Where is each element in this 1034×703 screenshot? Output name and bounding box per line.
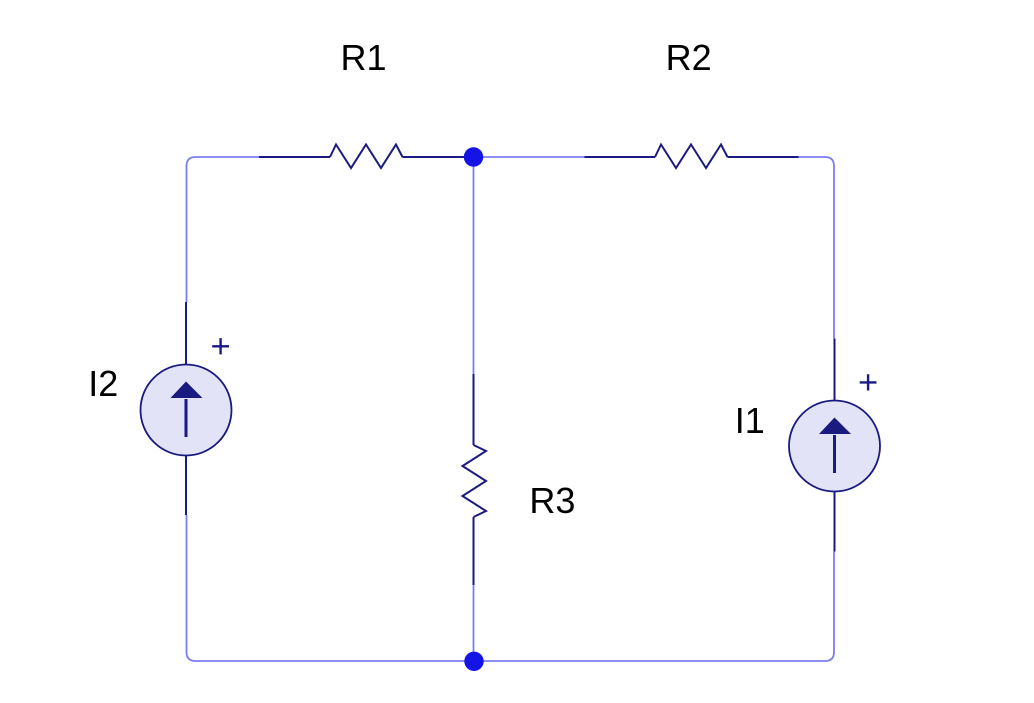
resistor R2 xyxy=(585,145,799,169)
junction node B (bottom) xyxy=(464,652,483,671)
wire: top middle, node A dot to R2 left pin xyxy=(474,156,585,158)
resistor R1 xyxy=(259,145,474,169)
wire: bottom loop from I2 bottom pin down, across bottom, up to I1 bottom pin xyxy=(187,515,835,661)
junction node A (top) xyxy=(464,147,483,166)
resistor R3 xyxy=(463,374,487,585)
wire: top-left from I2 top pin up and right to R1 left pin xyxy=(187,157,260,302)
current source I1 xyxy=(789,339,880,552)
wire: middle branch, R3 bottom pin down to node B dot xyxy=(473,585,475,661)
svg-text:R3: R3 xyxy=(529,480,575,521)
wire: top-right from R2 right pin right and down to I1 top pin xyxy=(799,157,835,339)
wire: middle branch, node A dot down to R3 top pin xyxy=(473,157,475,374)
current source I2 xyxy=(141,302,232,515)
svg-text:I1: I1 xyxy=(735,400,765,441)
svg-text:R2: R2 xyxy=(666,37,712,78)
svg-text:R1: R1 xyxy=(341,37,387,78)
svg-text:I2: I2 xyxy=(88,363,118,404)
